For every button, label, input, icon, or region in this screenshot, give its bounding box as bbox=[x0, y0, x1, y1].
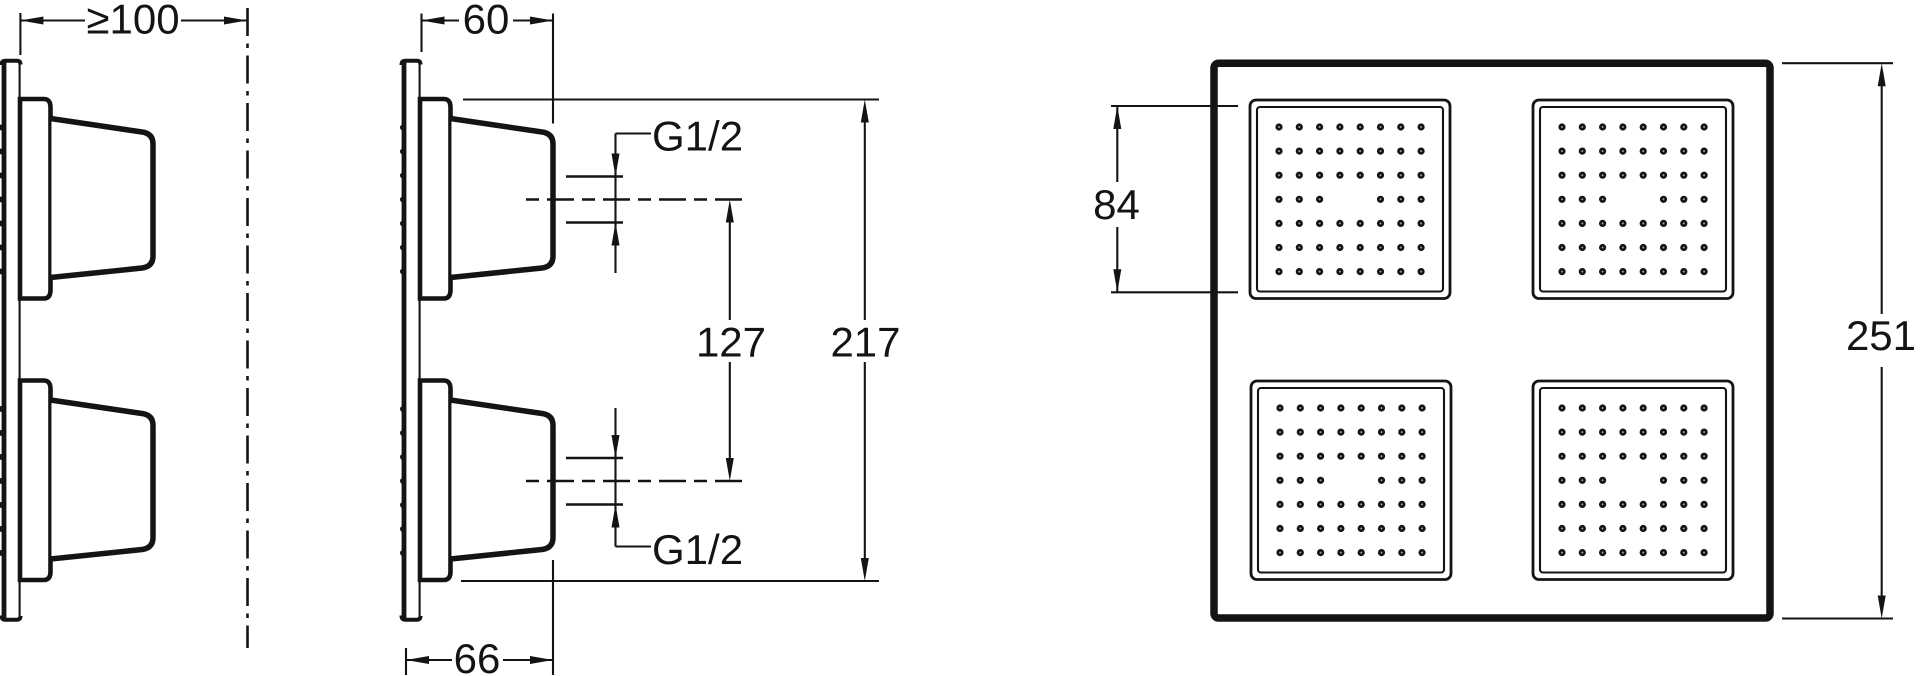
front view: panel body bbox=[1214, 63, 1770, 618]
upper inlet centerline bbox=[518, 198, 742, 200]
finished-wall centerline (dash-dot) bbox=[246, 8, 249, 648]
top-left spray face bbox=[1250, 100, 1450, 299]
dimension 84 (spray face size) bbox=[1093, 106, 1238, 292]
wall plate (edge view) bbox=[2, 61, 21, 620]
flange face edge line bbox=[50, 400, 52, 559]
flange face edge line bbox=[50, 119, 52, 278]
gasket dots, upper inlet bbox=[400, 125, 406, 275]
gasket dots, lower inlet bbox=[0, 406, 5, 556]
dimension 60 (projection from tile) bbox=[422, 0, 554, 124]
bottom-right spray face bbox=[1533, 381, 1733, 580]
dimension 251 (overall height, front view) bbox=[1782, 63, 1916, 618]
svg-text:G1/2: G1/2 bbox=[652, 113, 743, 160]
svg-text:251: 251 bbox=[1846, 312, 1916, 359]
lower inlet centerline bbox=[518, 480, 742, 482]
upper spray-head housing flange bbox=[420, 99, 451, 299]
svg-text:66: 66 bbox=[454, 635, 501, 676]
dimension 217 (overall height, side view) bbox=[461, 100, 901, 582]
upper spray-head housing flange bbox=[20, 99, 51, 299]
bottom-left spray face bbox=[1251, 381, 1451, 580]
lower spray-head housing flange bbox=[20, 381, 51, 581]
upper spray-head body (truncated cone) bbox=[51, 119, 154, 278]
svg-text:84: 84 bbox=[1093, 181, 1140, 228]
gasket dots, upper inlet bbox=[0, 124, 5, 274]
top-right spray face bbox=[1533, 100, 1733, 299]
middle side view (profile with dimensions) bbox=[400, 61, 553, 620]
lower spray-head housing flange bbox=[420, 381, 451, 581]
wall plate (edge view) bbox=[402, 61, 421, 620]
flange face edge line bbox=[450, 400, 452, 559]
dimension &ge;100 bbox=[20, 0, 247, 55]
thread label G1/2, lower inlet bbox=[566, 408, 743, 573]
thread label G1/2, upper inlet bbox=[566, 113, 743, 274]
svg-text:217: 217 bbox=[830, 319, 900, 366]
flange face edge line bbox=[450, 119, 452, 278]
dimension 66 (overall projection) bbox=[406, 560, 553, 676]
lower spray-head body (truncated cone) bbox=[451, 400, 554, 559]
left side view (installation depth) bbox=[0, 61, 153, 620]
svg-text:G1/2: G1/2 bbox=[652, 526, 743, 573]
svg-text:127: 127 bbox=[696, 319, 766, 366]
lower spray-head body (truncated cone) bbox=[51, 400, 154, 559]
dimension 127 (inlet spacing) bbox=[696, 200, 766, 482]
upper spray-head body (truncated cone) bbox=[451, 119, 554, 278]
svg-text:≥100: ≥100 bbox=[86, 0, 179, 43]
svg-text:60: 60 bbox=[463, 0, 510, 43]
gasket dots, lower inlet bbox=[400, 406, 406, 556]
